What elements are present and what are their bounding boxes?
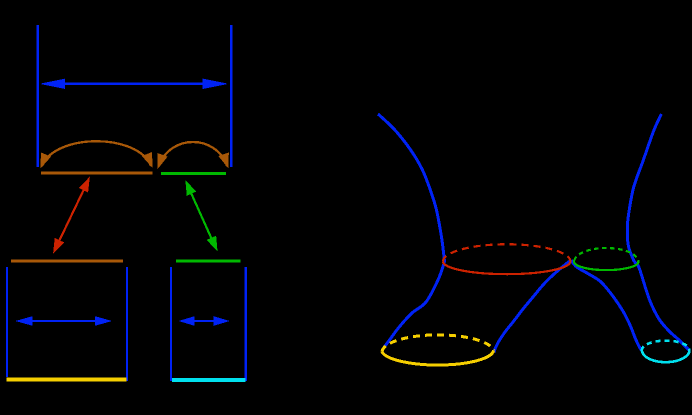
green segment top of right box — [176, 260, 241, 263]
wire left vertical blue — [36, 25, 38, 167]
wire right vertical blue — [230, 25, 232, 167]
wire left side of left box — [6, 267, 8, 377]
wire left outer boundary upper — [378, 114, 445, 262]
green segment upper — [161, 172, 226, 175]
yellow circle dashed upper half — [382, 335, 494, 352]
green circle dashed upper half — [574, 248, 638, 263]
cyan circle solid lower half — [642, 349, 689, 362]
cyan circle dashed upper half — [642, 341, 689, 351]
red circle dashed upper half — [443, 244, 570, 261]
wire right outer boundary upper — [627, 114, 661, 262]
wire inner left leg boundary — [494, 260, 571, 353]
cyan segment bottom of right box — [172, 378, 246, 382]
brown arc small with arrowheads — [159, 142, 227, 166]
blue width double-arrow — [42, 79, 227, 88]
wire right side of right box — [245, 267, 247, 381]
green circle solid lower half — [574, 261, 638, 271]
wire right side of left box — [126, 267, 128, 381]
blue small double-arrow left box — [17, 317, 110, 325]
red double-arrow diagonal — [54, 178, 89, 252]
wire left side of right box — [170, 267, 172, 381]
brown arc big with arrowheads — [42, 141, 151, 166]
green double-arrow diagonal — [186, 181, 217, 250]
wire inner right leg boundary — [571, 260, 642, 351]
brown segment top of left box — [11, 260, 123, 263]
yellow segment bottom of left box — [7, 378, 127, 382]
wire right outer boundary lower — [634, 262, 689, 350]
red circle solid lower half — [443, 261, 570, 274]
yellow circle solid lower half — [382, 350, 494, 365]
brown segment upper — [41, 172, 153, 175]
wire left outer boundary lower — [382, 262, 445, 352]
blue small double-arrow right box — [180, 317, 228, 325]
